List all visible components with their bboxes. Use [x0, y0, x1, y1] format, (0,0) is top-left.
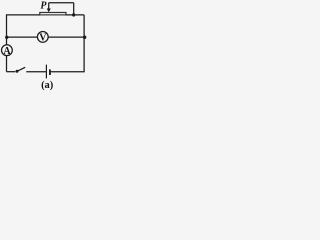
ammeter A1 circle	[2, 45, 13, 56]
node junction dot left (voltmeter branch)	[5, 36, 8, 39]
svg-text:V: V	[39, 33, 47, 44]
wire top (corner to rheostat)	[6, 14, 40, 16]
wire voltmeter branch right	[48, 36, 84, 38]
wiper wire top horizontal	[49, 2, 74, 4]
wire left vertical (top-left corner down to ammeter)	[6, 15, 8, 45]
wire right vertical	[83, 15, 85, 72]
rheostat wiper arrow shaft	[48, 3, 50, 9]
wire bottom (battery to bottom-right corner)	[51, 71, 85, 73]
voltmeter V1 circle	[37, 32, 48, 43]
svg-text:P: P	[40, 1, 47, 12]
wire bottom (bottom-left corner to switch)	[7, 71, 16, 73]
wiper wire right vertical	[73, 3, 75, 15]
wire top (rheostat to top-right corner)	[66, 14, 85, 16]
wire bottom (switch to battery)	[26, 71, 46, 73]
switch S lever	[18, 67, 26, 71]
svg-text:(a): (a)	[41, 80, 54, 91]
rheostat wiper arrowhead	[47, 9, 51, 13]
battery short plate	[49, 69, 51, 75]
node junction dot right (voltmeter branch)	[83, 36, 87, 40]
wire left vertical (ammeter to bottom-left corner)	[6, 56, 8, 72]
svg-text:A: A	[3, 46, 11, 57]
junction dot on top wire	[72, 13, 75, 16]
rheostat P body	[40, 12, 66, 15]
switch S pivot dot	[16, 70, 19, 73]
battery long plate	[45, 65, 47, 79]
wire voltmeter branch left	[7, 36, 38, 38]
